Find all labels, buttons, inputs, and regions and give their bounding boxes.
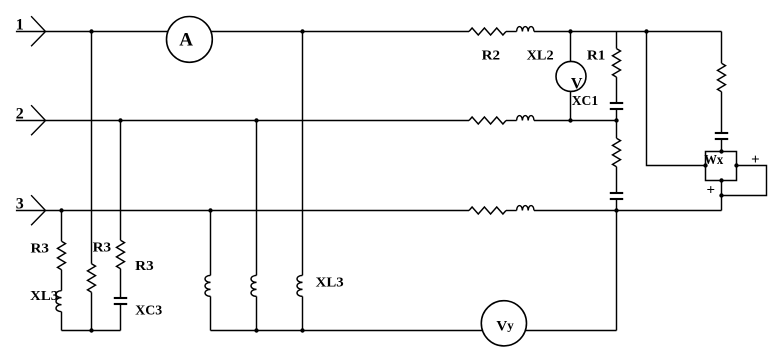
wire (bottom measurement bus) — [211, 330, 617, 332]
wire — [616, 199, 618, 211]
resistor R2 — [469, 28, 506, 35]
junction (row 2 / R1-XC1 branch) — [614, 118, 618, 122]
svg-text:XL3: XL3 — [30, 289, 58, 304]
wire (phase 2 bus, row 2, left) — [16, 120, 469, 122]
resistor R3 (branch 2) — [88, 264, 96, 293]
svg-text:A: A — [179, 30, 193, 51]
wire (phase 2-3 RC branch top) — [616, 121, 618, 139]
wire — [302, 296, 304, 330]
wire — [721, 92, 723, 133]
svg-text:+: + — [707, 183, 716, 199]
capacitor XC1 — [610, 102, 623, 104]
wire (column from row 3 to inductor 1) — [210, 211, 212, 276]
junction (row 2 / inductor 2 column) — [254, 118, 258, 122]
voltmeter Vy — [481, 301, 526, 346]
junction (row 3 / RC branch) — [614, 208, 618, 212]
svg-text:2: 2 — [16, 106, 24, 123]
wire (row 2 between R and L) — [506, 120, 517, 122]
resistor R1 — [613, 49, 621, 78]
node 2 input terminal arrow — [31, 105, 45, 135]
junction (inductor 3 / bottom bus) — [300, 328, 304, 332]
wire (row 1 between R2 and XL2) — [506, 31, 517, 33]
wire (left bottom bus) — [62, 330, 121, 332]
ammeter A — [167, 17, 213, 63]
inductor XL3 (branch 6) — [297, 275, 302, 296]
wire — [120, 269, 122, 298]
svg-text:XC1: XC1 — [572, 94, 599, 109]
resistor R3 (branch 3) — [117, 240, 125, 269]
wire — [61, 270, 63, 291]
svg-text:XL2: XL2 — [527, 48, 554, 63]
wattmeter terminal (bottom) — [719, 178, 723, 182]
wire (row-1 tap to wattmeter current path) — [647, 32, 706, 166]
capacitor (wattmeter series) — [715, 132, 728, 134]
wire — [91, 292, 93, 330]
wire — [616, 109, 618, 121]
svg-text:R1: R1 — [587, 48, 606, 63]
svg-text:1: 1 — [16, 17, 24, 34]
svg-text:XC3: XC3 — [135, 304, 162, 319]
wire (row 3 right of L) — [534, 210, 722, 212]
wire — [721, 139, 723, 152]
junction (branch 2 / left bus) — [89, 328, 93, 332]
wire — [61, 312, 63, 331]
wire — [616, 77, 618, 103]
svg-text:XL3: XL3 — [316, 276, 344, 291]
wattmeter Wx — [706, 152, 737, 181]
wire (wattmeter bottom lead) — [721, 181, 723, 211]
inductor (phase 2 line impedance) — [517, 116, 534, 121]
junction (row 1 / branch 2 column) — [89, 29, 93, 33]
junction (inductor 2 / bottom bus) — [254, 328, 258, 332]
resistor (phase 2 line impedance) — [469, 117, 506, 124]
voltmeter V — [556, 61, 586, 91]
junction (row 1 / voltmeter branch) — [568, 29, 572, 33]
junction (row 1 / inductor 3 column) — [300, 29, 304, 33]
inductor XL3 (branch 1) — [56, 291, 61, 312]
wire — [210, 296, 212, 330]
junction (row 1 / wattmeter tap) — [644, 29, 648, 33]
wire — [120, 304, 122, 331]
junction (row 3 / branch 1 column) — [59, 208, 63, 212]
svg-text:V: V — [571, 76, 583, 93]
wire (phase 1 bus, row 1, left) — [16, 31, 469, 33]
resistor (phase 3 line impedance) — [469, 207, 506, 214]
svg-text:R3: R3 — [31, 241, 50, 256]
wire — [256, 296, 258, 330]
inductor XL3 (branch 4) — [205, 275, 210, 296]
wire (column from row 1 to inductor 3) — [302, 32, 304, 276]
wire (row 3 between R and L) — [506, 210, 517, 212]
svg-text:R3: R3 — [135, 259, 154, 274]
resistor (wattmeter series) — [718, 63, 726, 91]
wire (row 2 right of L) — [534, 120, 617, 122]
svg-text:3: 3 — [16, 196, 24, 213]
wattmeter terminal (left) — [703, 163, 707, 167]
svg-text:R2: R2 — [482, 48, 501, 63]
wire (voltmeter branch) — [570, 32, 572, 121]
inductor (phase 3 line impedance) — [517, 206, 534, 211]
node 1 input terminal arrow — [31, 16, 45, 46]
wire (RC column to bottom bus) — [616, 211, 618, 331]
svg-text:Vy: Vy — [496, 317, 514, 334]
wattmeter terminal (right) — [734, 163, 738, 167]
junction (row 2 / branch 3 column) — [118, 118, 122, 122]
wire (far-right branch from row 1) — [721, 32, 723, 64]
wattmeter terminal (top) — [719, 149, 723, 153]
wire (column from row 1 junction down to branch 2) — [91, 32, 93, 264]
capacitor (phase 2 shunt) — [610, 192, 623, 194]
junction (row 2 / voltmeter branch) — [568, 118, 572, 122]
wire — [616, 167, 618, 193]
junction (row 3 / inductor 1 column) — [208, 208, 212, 212]
inductor XL2 — [517, 27, 534, 32]
inductor XL3 (branch 5) — [251, 275, 256, 296]
wire (row 1 right of XL2) — [534, 31, 722, 33]
wire (R1 branch top) — [616, 32, 618, 49]
resistor (phase 2 shunt) — [613, 138, 621, 167]
resistor R3 (branch 1) — [58, 241, 66, 270]
wire (wattmeter voltage loop) — [722, 166, 767, 196]
svg-text:R3: R3 — [93, 240, 112, 255]
junction (loop / bottom lead) — [719, 193, 723, 197]
node 3 input terminal arrow — [31, 195, 45, 225]
capacitor XC3 — [114, 297, 127, 299]
wire (column from row 3 to R3/XL3 branch) — [61, 211, 63, 242]
wire (column from row 2 to inductor 2) — [256, 121, 258, 276]
wire (column from row 2 junction down to branch 3) — [120, 121, 122, 241]
wire (phase 3 bus, row 3, left) — [16, 210, 469, 212]
